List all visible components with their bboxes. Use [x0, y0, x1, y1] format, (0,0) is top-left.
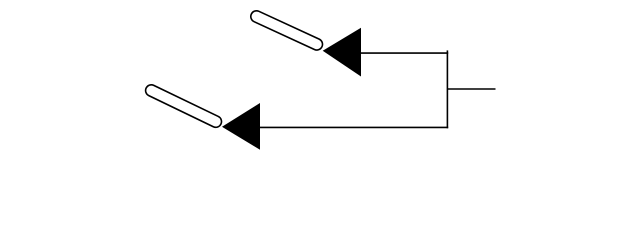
probe tip triangle (bottom) [222, 103, 260, 150]
wire: bottom horizontal from lower triangle to right bus [260, 126, 449, 128]
probe tip triangle (top) [323, 28, 361, 77]
wire: right vertical bus [446, 50, 448, 128]
probe handle (bottom capsule) [151, 91, 216, 122]
wire: top horizontal from upper triangle to right bus [361, 52, 449, 54]
wire: output stub to the right of bus [447, 88, 495, 90]
probe handle (top capsule) [257, 17, 317, 45]
